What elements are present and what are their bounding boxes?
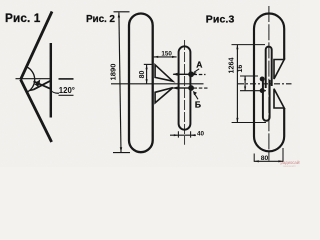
fig3 bottom extension line — [232, 122, 266, 124]
fig2 dimension 40 line — [170, 134, 196, 136]
fig3 top extension line — [232, 44, 266, 46]
fig2 dimension 150 line — [154, 56, 177, 58]
fig2 feed point A dot — [188, 71, 194, 77]
fig1 crossed feed line 1 — [34, 81, 51, 89]
fig3 dimension 16 line — [244, 76, 246, 91]
fig2 feed connector upper — [173, 73, 188, 75]
fig1 angle label underline — [59, 94, 74, 96]
fig3 feed dot lower — [260, 88, 265, 93]
fig1 axis line — [16, 78, 52, 80]
fig2 arrow to A — [194, 69, 199, 73]
fig2 bottom extension line — [113, 152, 130, 154]
fig3 vertical centerline — [268, 6, 270, 161]
fig3 outer loop with feed gap — [254, 13, 284, 151]
fig3 dim16 extension bottom — [240, 90, 266, 92]
fig3 horizontal axis — [238, 83, 292, 85]
fig2 driven element (small stadium) — [179, 46, 191, 129]
fig2 feed connector lower — [173, 87, 188, 89]
fig1 vertical element — [50, 43, 52, 118]
fig2 upper taper triangle — [155, 65, 173, 81]
fig2 loop element (large stadium) — [129, 14, 153, 153]
fig3 lower cut wedge — [274, 89, 284, 108]
fig3 feed dot upper — [260, 77, 265, 82]
fig2 arrow to B — [194, 93, 198, 100]
fig3 upper inner hairpin — [266, 47, 272, 88]
fig2 dimension 80 line — [146, 65, 148, 84]
fig2 driven element centerline — [184, 40, 186, 145]
fig3 dimension 80 line — [254, 160, 283, 162]
fig2 top extension line — [114, 11, 130, 13]
fig1 leader to angle label — [51, 91, 59, 94]
fig3 dim80 extension right — [282, 148, 284, 162]
fig3 upper cut wedge — [274, 60, 284, 80]
fig2 lower taper triangle — [155, 88, 173, 103]
fig1 crossed feed line 2 — [34, 81, 51, 90]
fig3 dim80 extension left — [253, 154, 255, 162]
fig1 feed connector — [30, 89, 34, 92]
fig3 lower inner hairpin — [263, 78, 270, 121]
fig2 horizontal axis — [111, 83, 204, 85]
fig1 small arrow wedge — [34, 80, 40, 87]
fig3 dim16 extension top — [240, 75, 258, 77]
fig1 upper arm wire — [21, 12, 52, 80]
fig3 dimension 1264 line — [236, 45, 238, 123]
fig2 dim80 extension tick — [144, 63, 152, 65]
fig1 angle arc — [26, 67, 34, 92]
fig1 lower arm wire — [21, 80, 52, 143]
fig2 dashed lead upper — [194, 74, 206, 76]
fig2 dimension line 1890 — [119, 13, 121, 153]
fig2 dim40 extension ticks — [178, 131, 190, 137]
fig2 dashed lead lower — [194, 87, 208, 89]
fig2 feed point B dot — [188, 85, 194, 91]
fig1 axis dash — [59, 78, 74, 80]
